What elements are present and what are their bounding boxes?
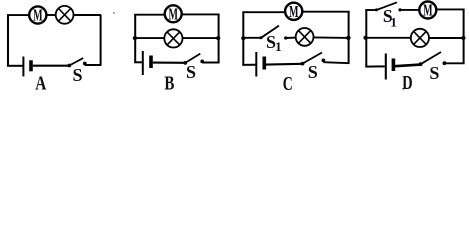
svg-text:1: 1: [390, 15, 397, 30]
battery B4 circuit D long plate: [385, 54, 387, 80]
svg-text:M: M: [289, 2, 299, 21]
switch S1 circuit C blade: [261, 26, 279, 38]
node C left junction: [241, 36, 245, 40]
wire C lamp to right vertical: [314, 36, 349, 39]
svg-text:C: C: [283, 73, 293, 94]
switch S circuit B left contact: [183, 61, 187, 65]
wire B left vertical: [134, 15, 136, 63]
switch S circuit B right contact: [200, 60, 204, 64]
svg-text:S: S: [308, 62, 318, 82]
wire A top right segment: [74, 14, 102, 16]
svg-text:M: M: [33, 6, 43, 25]
wire C top left segment: [242, 11, 285, 13]
battery B4 circuit D short plate: [392, 59, 396, 72]
switch S circuit A right contact: [83, 62, 87, 66]
switch S circuit B blade: [185, 54, 200, 63]
svg-text:B: B: [164, 73, 174, 94]
lamp L4 circuit D: [411, 29, 429, 47]
wire B middle left segment: [135, 37, 165, 39]
switch S circuit D right contact: [443, 61, 447, 65]
battery B2 circuit B short plate: [149, 56, 153, 69]
svg-text:M: M: [423, 1, 433, 20]
switch S1 circuit C left contact: [260, 36, 263, 39]
wire D motor to right corner: [436, 8, 464, 10]
wire D top corner to switch: [365, 9, 376, 11]
wire B right vertical: [218, 14, 220, 62]
switch S1 circuit D right contact: [398, 8, 401, 11]
node B left junction: [133, 36, 137, 40]
node C right junction: [346, 36, 350, 40]
switch S circuit D blade: [421, 52, 441, 64]
lamp L3 circuit C: [296, 28, 314, 46]
wire B top right segment: [182, 13, 219, 15]
label S1 circuit D: [383, 6, 397, 30]
stray mark near circuit A: [113, 12, 115, 14]
wire A battery to switch: [33, 65, 70, 67]
switch S circuit A left contact: [67, 64, 71, 68]
motor M1 circuit A: [29, 6, 46, 25]
svg-text:M: M: [169, 4, 179, 23]
wire B middle right segment: [183, 37, 219, 39]
battery B3 circuit C long plate: [255, 52, 257, 77]
wire A between motor and lamp: [47, 14, 56, 16]
svg-text:1: 1: [275, 39, 282, 54]
battery B1 circuit A short plate: [29, 60, 33, 71]
svg-text:A: A: [35, 73, 46, 94]
wire D right vertical: [463, 9, 465, 63]
motor M2 circuit B: [165, 4, 182, 23]
wire D middle segment: [366, 37, 411, 39]
wire B top left segment: [134, 14, 165, 16]
battery B2 circuit B long plate: [142, 51, 144, 75]
switch S1 circuit D blade: [376, 2, 397, 10]
wire C switch to lamp: [286, 37, 297, 39]
wire D lamp to right vertical: [429, 37, 463, 39]
switch S circuit D left contact: [419, 62, 423, 66]
svg-text:S: S: [72, 65, 82, 85]
svg-text:S: S: [186, 62, 196, 82]
svg-text:S: S: [429, 63, 439, 83]
lamp L2 circuit B: [164, 29, 182, 47]
node B right junction: [216, 36, 220, 40]
switch S circuit C blade: [303, 53, 323, 64]
switch S circuit C left contact: [301, 62, 305, 66]
wire C middle left segment: [243, 37, 261, 39]
switch S circuit A blade: [69, 58, 83, 65]
label S1 circuit C: [266, 32, 282, 54]
wire C battery to switch: [266, 63, 303, 66]
battery B3 circuit C short plate: [262, 57, 266, 70]
stray mark below label D: [403, 89, 405, 91]
switch S1 circuit C right contact: [284, 36, 287, 39]
wire B battery to switch: [153, 62, 185, 64]
motor M3 circuit C: [285, 2, 302, 21]
wire A bottom left segment: [7, 65, 22, 67]
wire D switch to motor: [400, 9, 420, 11]
wire D bottom left segment: [365, 65, 385, 67]
svg-text:D: D: [402, 72, 413, 94]
wire C switch to right corner: [323, 62, 349, 63]
node D left junction: [363, 36, 367, 40]
wire D left vertical: [365, 10, 367, 67]
wire D switch to right corner: [444, 62, 464, 64]
wire A right vertical: [100, 15, 102, 66]
battery B1 circuit A long plate: [22, 57, 24, 77]
wire A top left segment: [7, 14, 30, 16]
switch S circuit C right contact: [322, 59, 326, 63]
wire C top right segment: [303, 11, 350, 13]
wire C left vertical: [242, 13, 244, 65]
wire C right vertical: [348, 12, 350, 64]
stray mark below circuit D: [402, 76, 404, 78]
wire B switch to right corner: [202, 62, 219, 64]
wire A switch to right corner: [85, 64, 101, 66]
node D right junction: [461, 36, 465, 40]
switch S1 circuit D left contact: [375, 8, 378, 11]
wire D battery to switch: [395, 65, 421, 67]
lamp L1 circuit A: [56, 6, 74, 24]
wire A left vertical: [7, 15, 9, 66]
wire B bottom left segment: [134, 61, 142, 63]
motor M4 circuit D: [419, 1, 436, 20]
wire C bottom left segment: [242, 64, 255, 66]
